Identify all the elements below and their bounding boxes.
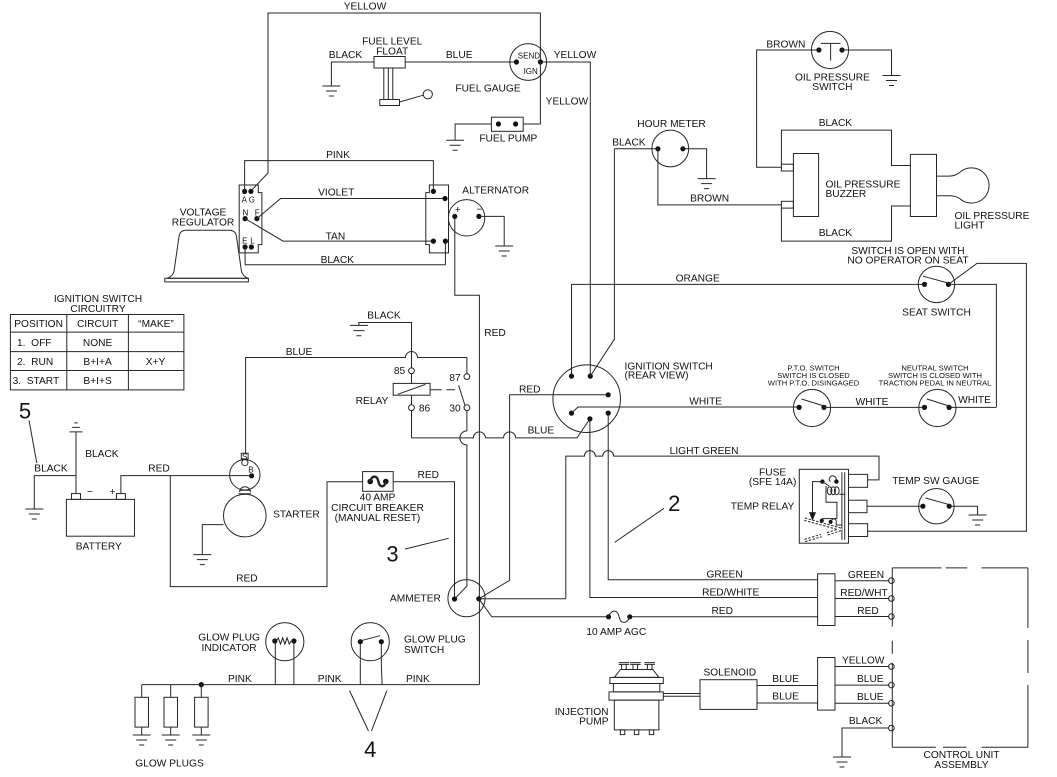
relay terminal 87 (464, 374, 470, 380)
node glow plug junction (199, 682, 204, 687)
ground left battery branch (25, 509, 43, 519)
svg-text:LIGHT GREEN: LIGHT GREEN (670, 446, 739, 457)
wire BLACK buzzer top (781, 130, 910, 165)
voltage regulator body (167, 230, 249, 278)
svg-text:FUEL PUMP: FUEL PUMP (479, 134, 537, 145)
svg-text:BLUE: BLUE (857, 692, 884, 703)
temp relay box (799, 469, 848, 543)
svg-text:RED: RED (857, 606, 879, 617)
wire RED fuse to control unit (632, 616, 817, 618)
starter solenoid terminal S (241, 453, 248, 459)
circuit breaker CB1 (363, 472, 394, 492)
oil pressure switch (811, 31, 848, 68)
wire BLACK float ground lead (331, 62, 374, 86)
terminal BLUE 2 (889, 701, 895, 707)
wire BLUE starter S to relay 87 with hop (246, 352, 467, 454)
wire YELLOW gauge to fuel pump (523, 62, 540, 124)
wire ammeter to light green riser (479, 598, 566, 600)
ground hour meter (698, 179, 716, 189)
connector VR plug (239, 185, 262, 253)
svg-text:SEAT SWITCH: SEAT SWITCH (902, 307, 971, 318)
svg-text:BLACK: BLACK (321, 255, 355, 266)
svg-text:BUZZER: BUZZER (826, 189, 867, 200)
wire BLUE solenoid upper (757, 685, 818, 687)
ground glow plug 3 (192, 735, 210, 745)
fuel level float sender (374, 57, 405, 69)
wire alternator minus to ground (479, 216, 504, 246)
svg-text:BLACK: BLACK (329, 50, 363, 61)
temp relay internals (810, 476, 846, 525)
svg-text:WHITE: WHITE (689, 396, 722, 407)
node ammeter right (476, 596, 481, 601)
svg-text:STARTER: STARTER (273, 510, 320, 521)
wire ORANGE ignition to seat switch (572, 284, 925, 376)
alternator U1 (448, 200, 484, 236)
pin A (242, 189, 247, 194)
seat switch (918, 266, 954, 302)
wire GREEN ignition to control unit (608, 413, 817, 580)
pin F (254, 216, 259, 221)
svg-text:BLACK: BLACK (819, 228, 853, 239)
node ignition right (606, 392, 611, 397)
svg-text:BATTERY: BATTERY (76, 541, 122, 552)
svg-text:L: L (250, 237, 255, 246)
pin G (248, 189, 253, 194)
svg-text:N: N (243, 208, 249, 217)
temp relay contact bar (842, 472, 845, 540)
wire RED ammeter to 10A fuse (479, 599, 606, 617)
starter motor (224, 494, 267, 537)
ground float (322, 86, 340, 96)
svg-text:TEMP RELAY: TEMP RELAY (731, 502, 795, 513)
wire relay 30 down to ammeter with hop over blue (455, 411, 467, 599)
wire BLUE float to gauge (405, 61, 516, 63)
svg-text:BLACK: BLACK (85, 449, 119, 460)
svg-text:B: B (248, 466, 253, 475)
svg-text:3. START: 3. START (13, 376, 60, 387)
ground temp gauge (969, 515, 987, 525)
svg-text:WHITE: WHITE (958, 395, 991, 406)
svg-text:3: 3 (386, 542, 398, 567)
svg-text:BLACK: BLACK (849, 716, 883, 727)
wire RED breaker to ammeter (393, 482, 454, 599)
svg-text:86: 86 (419, 404, 431, 415)
svg-text:SWITCH: SWITCH (404, 645, 444, 656)
node alternator minus (476, 214, 481, 219)
svg-text:1. OFF: 1. OFF (17, 338, 52, 349)
svg-text:ALTERNATOR: ALTERNATOR (462, 185, 529, 196)
ground oil switch (883, 76, 901, 86)
svg-text:(REAR VIEW): (REAR VIEW) (625, 371, 689, 382)
svg-text:“MAKE”: “MAKE” (138, 319, 174, 330)
wire BLACK buzzer bottom (781, 206, 910, 241)
neutral switch (919, 389, 956, 426)
svg-text:IGN: IGN (524, 67, 538, 76)
connector block upper (818, 574, 835, 626)
node ammeter left (452, 596, 457, 601)
node fuel gauge IGN (538, 59, 543, 64)
ground relay coil (350, 325, 368, 335)
wire RED/WHT block to control unit (835, 598, 889, 600)
relay K1 coil box (393, 383, 430, 395)
svg-text:RED/WHT: RED/WHT (840, 588, 888, 599)
temp relay tab mid (849, 500, 868, 513)
svg-text:SWITCH: SWITCH (812, 82, 852, 93)
svg-text:BLUE: BLUE (286, 347, 313, 358)
wire BLUE solenoid lower (757, 702, 818, 704)
temp sw gauge (919, 489, 954, 524)
fuse 10 AMP AGC (606, 614, 611, 619)
glow plug resistor 1 (141, 685, 143, 698)
pin alt plug violet (442, 196, 447, 201)
wire BLACK hour meter to ignition (590, 149, 614, 376)
svg-text:PINK: PINK (406, 674, 430, 685)
wire RED ignition feed (479, 395, 608, 599)
fuel pump (491, 117, 523, 131)
svg-text:BLACK: BLACK (819, 118, 853, 129)
wire WHITE pto to neutral (824, 406, 925, 408)
svg-text:10 AMP AGC: 10 AMP AGC (586, 627, 646, 638)
svg-text:PINK: PINK (318, 674, 342, 685)
svg-text:87: 87 (449, 373, 461, 384)
pin alt plug pink (431, 189, 436, 194)
svg-text:BLUE: BLUE (446, 50, 473, 61)
svg-text:−: − (87, 487, 93, 498)
svg-text:NONE: NONE (83, 338, 113, 349)
callout 4 (350, 691, 387, 731)
wire BROWN hour meter to buzzer (658, 149, 782, 205)
wire TAN (245, 219, 433, 242)
terminal BLUE (889, 682, 895, 688)
svg-text:BROWN: BROWN (766, 39, 805, 50)
svg-text:CIRCUITRY: CIRCUITRY (70, 304, 125, 315)
terminal RED (889, 614, 895, 620)
node alternator plus (452, 214, 457, 219)
oil pressure light bulb (937, 168, 990, 203)
wire BLACK battery minus to ground (75, 432, 77, 494)
glow plug switch (359, 642, 361, 685)
node ignition left (569, 411, 574, 416)
wire BLACK vr to alternator plug (245, 241, 445, 265)
battery (66, 499, 134, 536)
svg-text:A: A (242, 195, 248, 204)
svg-text:AMMETER: AMMETER (390, 593, 441, 604)
control unit assembly box (892, 568, 1028, 747)
svg-text:CIRCUIT: CIRCUIT (77, 319, 118, 330)
relay terminal 30 (464, 405, 470, 411)
svg-text:PINK: PINK (326, 150, 350, 161)
svg-text:30: 30 (449, 404, 461, 415)
wire fuel pump ground lead (455, 124, 491, 140)
wire PINK glow plugs feed (142, 684, 480, 686)
wire WHITE neutral to seat junction (949, 406, 996, 408)
wire YELLOW gauge to ignition switch (540, 62, 590, 376)
ground alternator (495, 246, 513, 256)
wire seat switch to white junction (949, 284, 997, 407)
svg-text:(MANUAL RESET): (MANUAL RESET) (335, 513, 421, 524)
svg-text:F: F (255, 208, 260, 217)
terminal BLACK (889, 725, 895, 731)
pin alt plug black (443, 239, 448, 244)
svg-text:RED: RED (148, 464, 170, 475)
connector block lower (818, 658, 835, 711)
connector alternator plug (426, 185, 449, 253)
svg-text:BLUE: BLUE (528, 426, 555, 437)
wire WHITE ignition to pto switch (572, 407, 800, 413)
ammeter (448, 580, 485, 617)
relay terminal 85 (409, 368, 415, 374)
wire seat switch to temp relay tab (868, 263, 1027, 531)
temp relay tab bottom (849, 524, 868, 537)
svg-text:REGULATOR: REGULATOR (172, 218, 234, 229)
node ignition top-mid (588, 374, 593, 379)
terminal YELLOW (889, 664, 895, 670)
svg-text:TAN: TAN (326, 231, 346, 242)
svg-text:B+I+S: B+I+S (83, 376, 112, 387)
svg-text:GREEN: GREEN (706, 569, 742, 580)
indicator resistor zigzag (277, 638, 292, 644)
svg-text:2. RUN: 2. RUN (17, 357, 53, 368)
pin N (243, 216, 248, 221)
wire RED alternator feed (455, 216, 480, 684)
node ignition bottom-mid (587, 416, 592, 421)
svg-text:SEND: SEND (518, 52, 540, 61)
relay contact blade (430, 385, 465, 405)
svg-text:RED: RED (418, 470, 440, 481)
svg-text:YELLOW: YELLOW (344, 2, 387, 13)
wire temp relay mid tab to gauge (867, 505, 923, 507)
ground glow plug 1 (133, 735, 151, 745)
wire RED battery to starter B (121, 476, 252, 494)
injection pump (609, 663, 663, 735)
wire BLUE block to control unit (835, 684, 889, 686)
svg-text:BLACK: BLACK (34, 464, 68, 475)
wire RED block to control unit (835, 616, 889, 618)
svg-text:LIGHT: LIGHT (955, 221, 985, 232)
svg-text:85: 85 (394, 366, 406, 377)
ground glow plug 2 (162, 735, 180, 745)
svg-text:(SFE 14A): (SFE 14A) (749, 477, 797, 488)
svg-text:YELLOW: YELLOW (842, 655, 885, 666)
ground fuel pump (446, 140, 464, 150)
glow plug resistor 3 (200, 685, 202, 698)
wire hour meter right to ground (683, 149, 707, 179)
wire VIOLET (257, 199, 445, 219)
wire BLACK left ground branch (34, 476, 76, 509)
svg-text:BROWN: BROWN (690, 194, 729, 205)
svg-text:RED/WHITE: RED/WHITE (702, 587, 759, 598)
oil pressure light socket (910, 154, 936, 216)
wire BLUE 2 block to control unit (835, 702, 889, 704)
oil pressure buzzer (793, 154, 818, 217)
svg-text:WITH P.T.O. DISINGAGED: WITH P.T.O. DISINGAGED (768, 379, 860, 388)
fuel gauge circle (510, 44, 547, 81)
svg-text:RED: RED (236, 573, 258, 584)
wire starter ground (202, 525, 223, 555)
hour meter (652, 130, 689, 167)
relay terminal 86 (409, 405, 415, 411)
svg-text:SOLENOID: SOLENOID (703, 668, 756, 679)
svg-text:BLACK: BLACK (612, 137, 646, 148)
node fuel gauge SEND (514, 59, 519, 64)
node starter B (249, 473, 254, 478)
svg-text:RED: RED (519, 384, 541, 395)
wire LIGHT GREEN with hops (566, 451, 879, 599)
temp relay tab top (849, 474, 868, 487)
svg-text:WHITE: WHITE (856, 397, 889, 408)
pin E (243, 244, 248, 249)
svg-text:E: E (242, 237, 247, 246)
wire YELLOW top loop (251, 13, 541, 191)
glow plug indicator (274, 641, 276, 685)
solenoid (700, 680, 757, 710)
svg-text:FUEL GAUGE: FUEL GAUGE (455, 83, 520, 94)
svg-text:FLOAT: FLOAT (376, 46, 408, 57)
ground starter (193, 555, 211, 565)
svg-text:GLOW PLUGS: GLOW PLUGS (135, 758, 204, 769)
svg-text:BLUE: BLUE (772, 692, 799, 703)
float ball (423, 90, 432, 99)
svg-text:G: G (249, 195, 255, 204)
svg-text:RED: RED (711, 606, 733, 617)
svg-text:GREEN: GREEN (848, 570, 884, 581)
svg-text:BLACK: BLACK (367, 310, 401, 321)
wire gauge to ground (949, 506, 977, 515)
node ignition top-left (569, 374, 574, 379)
svg-text:NO OPERATOR ON SEAT: NO OPERATOR ON SEAT (847, 256, 968, 267)
wire RED/WHITE ignition to control unit (590, 419, 818, 598)
svg-text:B+I+A: B+I+A (83, 357, 112, 368)
injection pump link rod (663, 694, 700, 697)
ground control unit (833, 757, 851, 767)
wire RED battery loop to breaker (170, 476, 362, 587)
svg-text:ORANGE: ORANGE (676, 273, 720, 284)
svg-text:RED: RED (484, 328, 506, 339)
wire BLACK hour meter lead (614, 148, 658, 150)
svg-text:TRACTION PEDAL IN NEUTRAL: TRACTION PEDAL IN NEUTRAL (879, 379, 992, 388)
svg-text:YELLOW: YELLOW (546, 96, 589, 107)
svg-text:INDICATOR: INDICATOR (202, 643, 257, 654)
svg-text:BLUE: BLUE (857, 674, 884, 685)
svg-text:POSITION: POSITION (14, 319, 63, 330)
wire YELLOW block to control unit (835, 666, 889, 668)
pin alt plug tan (431, 239, 436, 244)
ignition switch (rear view) (553, 365, 621, 433)
starter solenoid (230, 460, 260, 490)
ground battery upward (70, 423, 83, 432)
svg-text:BLUE: BLUE (772, 674, 799, 685)
svg-text:2: 2 (668, 491, 680, 516)
terminal GREEN (889, 578, 895, 584)
node ignition bottom-right (606, 411, 611, 416)
svg-text:GLOW PLUG: GLOW PLUG (404, 634, 466, 645)
pin L (249, 244, 254, 249)
svg-text:+: + (110, 487, 116, 498)
svg-text:VIOLET: VIOLET (318, 188, 354, 199)
wire BLACK relay ground (359, 323, 412, 369)
svg-text:TEMP SW GAUGE: TEMP SW GAUGE (892, 476, 979, 487)
svg-text:4: 4 (364, 737, 376, 762)
svg-text:RELAY: RELAY (356, 396, 389, 407)
svg-text:X+Y: X+Y (146, 357, 166, 368)
wire PINK (245, 161, 434, 192)
wire oil switch to buzzer top tab (757, 50, 819, 167)
svg-text:PUMP: PUMP (579, 717, 609, 728)
svg-text:GLOW PLUG: GLOW PLUG (198, 632, 260, 643)
wire relay 86 to ignition BLUE with hops (412, 411, 590, 438)
svg-text:PINK: PINK (228, 674, 252, 685)
terminal RED/WHT (889, 596, 895, 602)
wire GREEN block to control unit (835, 580, 889, 582)
pto switch (793, 389, 830, 426)
temp relay heater coil (805, 519, 842, 540)
svg-text:HOUR METER: HOUR METER (637, 119, 705, 130)
float lever (400, 95, 424, 102)
svg-text:YELLOW: YELLOW (554, 50, 597, 61)
svg-text:ASSEMBLY: ASSEMBLY (934, 760, 988, 771)
wire BLACK control unit to ground (842, 728, 889, 757)
wire oil switch right to ground (842, 50, 892, 76)
glow plug resistor 2 (170, 685, 172, 698)
svg-text:5: 5 (19, 399, 31, 424)
